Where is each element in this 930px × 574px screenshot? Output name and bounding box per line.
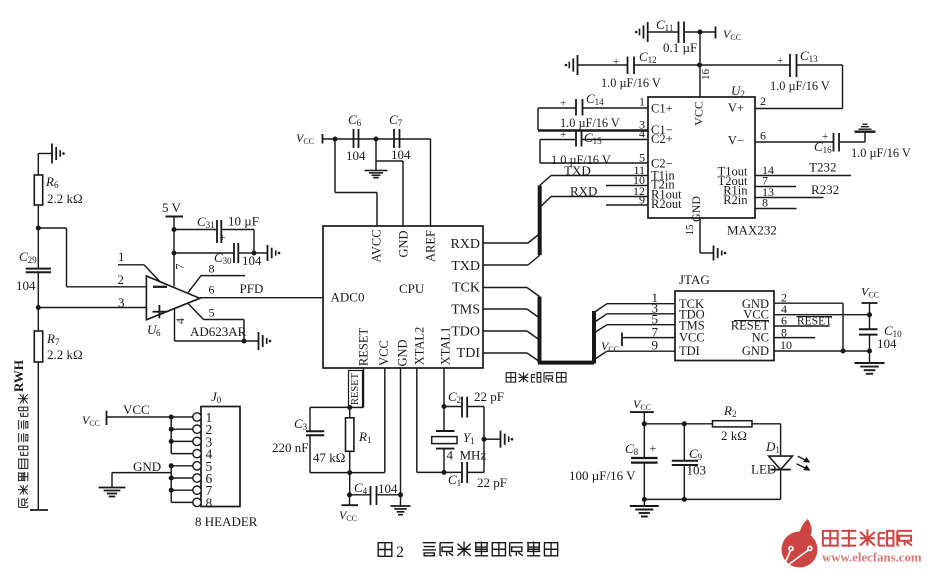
svg-text:3: 3 xyxy=(118,295,125,310)
svg-text:8: 8 xyxy=(209,262,215,276)
svg-text:JTAG: JTAG xyxy=(679,272,710,287)
svg-text:8 HEADER: 8 HEADER xyxy=(195,514,258,529)
svg-text:TDO: TDO xyxy=(451,325,480,340)
svg-text:R2in: R2in xyxy=(723,193,748,207)
svg-text:ADC0: ADC0 xyxy=(331,290,365,305)
svg-text:104: 104 xyxy=(346,148,366,163)
svg-text:C1+: C1+ xyxy=(651,102,673,116)
svg-text:6: 6 xyxy=(760,129,766,143)
svg-text:220 nF: 220 nF xyxy=(272,440,308,455)
svg-text:6: 6 xyxy=(156,328,161,338)
svg-text:TDI: TDI xyxy=(679,344,700,358)
svg-text:2: 2 xyxy=(396,544,404,561)
svg-text:104: 104 xyxy=(391,147,411,162)
svg-text:1.0 µF/16 V: 1.0 µF/16 V xyxy=(770,79,830,93)
svg-text:GND: GND xyxy=(742,344,769,358)
svg-text:7: 7 xyxy=(172,264,186,270)
svg-text:VCC: VCC xyxy=(123,402,150,417)
svg-text:9: 9 xyxy=(639,193,645,207)
svg-text:VCC: VCC xyxy=(691,101,705,126)
svg-text:+: + xyxy=(613,56,619,68)
svg-text:6: 6 xyxy=(209,283,215,297)
svg-text:1.0 µF/16 V: 1.0 µF/16 V xyxy=(560,116,620,130)
svg-text:10 µF: 10 µF xyxy=(228,214,259,229)
svg-text:4: 4 xyxy=(173,318,187,324)
svg-text:AD623AR: AD623AR xyxy=(190,324,247,339)
svg-text:TXD: TXD xyxy=(451,259,480,274)
svg-text:2 kΩ: 2 kΩ xyxy=(721,428,747,443)
svg-text:2: 2 xyxy=(760,94,766,108)
svg-text:1.0 µF/16 V: 1.0 µF/16 V xyxy=(851,146,911,160)
svg-text:100 µF/16 V: 100 µF/16 V xyxy=(569,468,636,483)
svg-text:+: + xyxy=(777,55,783,67)
svg-text:AVCC: AVCC xyxy=(369,229,383,262)
svg-text:RWH: RWH xyxy=(11,360,26,392)
svg-text:+: + xyxy=(220,232,226,244)
svg-text:AREF: AREF xyxy=(423,230,437,262)
svg-text:NC: NC xyxy=(752,331,769,345)
svg-text:+: + xyxy=(822,131,828,143)
svg-text:TDI: TDI xyxy=(457,346,481,361)
svg-text:TCK: TCK xyxy=(452,281,480,296)
svg-text:PFD: PFD xyxy=(240,281,264,296)
svg-text:1: 1 xyxy=(118,249,125,264)
svg-text:16: 16 xyxy=(700,69,712,81)
svg-text:MAX232: MAX232 xyxy=(727,223,777,238)
svg-text:VCC: VCC xyxy=(377,340,391,366)
svg-text:GND: GND xyxy=(133,459,161,474)
svg-text:RXD: RXD xyxy=(570,184,597,199)
svg-text:47 kΩ: 47 kΩ xyxy=(313,450,345,465)
svg-text:V+: V+ xyxy=(728,101,744,115)
svg-text:2: 2 xyxy=(118,272,125,287)
svg-text:R2out: R2out xyxy=(651,197,682,211)
svg-text:R232: R232 xyxy=(811,182,839,197)
svg-text:CPU: CPU xyxy=(399,281,425,296)
svg-text:5 V: 5 V xyxy=(162,200,182,215)
svg-text:+: + xyxy=(560,98,566,110)
svg-text:15: 15 xyxy=(684,224,696,236)
svg-text:RXD: RXD xyxy=(450,237,480,252)
svg-text:C2+: C2+ xyxy=(651,132,673,146)
svg-text:0.1 µF: 0.1 µF xyxy=(663,40,697,55)
svg-text:104: 104 xyxy=(378,481,398,496)
svg-text:104: 104 xyxy=(16,278,36,293)
svg-text:+: + xyxy=(650,441,657,455)
svg-text:+: + xyxy=(560,129,566,141)
svg-text:10: 10 xyxy=(780,338,792,352)
svg-text:1: 1 xyxy=(639,95,645,109)
svg-text:MHz: MHz xyxy=(460,448,487,463)
svg-text:4: 4 xyxy=(447,448,454,463)
svg-text:104: 104 xyxy=(242,253,262,268)
svg-text:104: 104 xyxy=(877,336,897,351)
svg-text:TMS: TMS xyxy=(451,303,480,318)
svg-text:XTAL2: XTAL2 xyxy=(412,327,426,366)
svg-text:RESET: RESET xyxy=(350,372,361,405)
svg-text:RESET: RESET xyxy=(797,316,832,328)
svg-text:9: 9 xyxy=(652,338,659,353)
svg-text:2.2 kΩ: 2.2 kΩ xyxy=(47,347,83,362)
svg-text:T232: T232 xyxy=(809,160,836,175)
svg-text:1.0 µF/16 V: 1.0 µF/16 V xyxy=(551,153,611,167)
svg-text:4: 4 xyxy=(639,127,645,141)
svg-text:V−: V− xyxy=(728,134,744,148)
svg-text:www.elecfans.com: www.elecfans.com xyxy=(822,551,922,565)
svg-text:LED: LED xyxy=(751,462,776,477)
svg-text:8: 8 xyxy=(206,495,213,510)
svg-text:1.0 µF/16 V: 1.0 µF/16 V xyxy=(601,76,661,90)
svg-text:GND: GND xyxy=(395,339,409,366)
svg-text:2.2 kΩ: 2.2 kΩ xyxy=(47,191,83,206)
svg-text:VCC: VCC xyxy=(679,331,705,345)
svg-text:22 pF: 22 pF xyxy=(477,475,507,490)
svg-text:103: 103 xyxy=(687,463,707,478)
svg-text:22 pF: 22 pF xyxy=(474,389,504,404)
svg-text:8: 8 xyxy=(762,196,768,210)
svg-text:5: 5 xyxy=(209,306,215,320)
svg-text:GND: GND xyxy=(396,230,410,257)
svg-text:RESET: RESET xyxy=(356,328,370,367)
